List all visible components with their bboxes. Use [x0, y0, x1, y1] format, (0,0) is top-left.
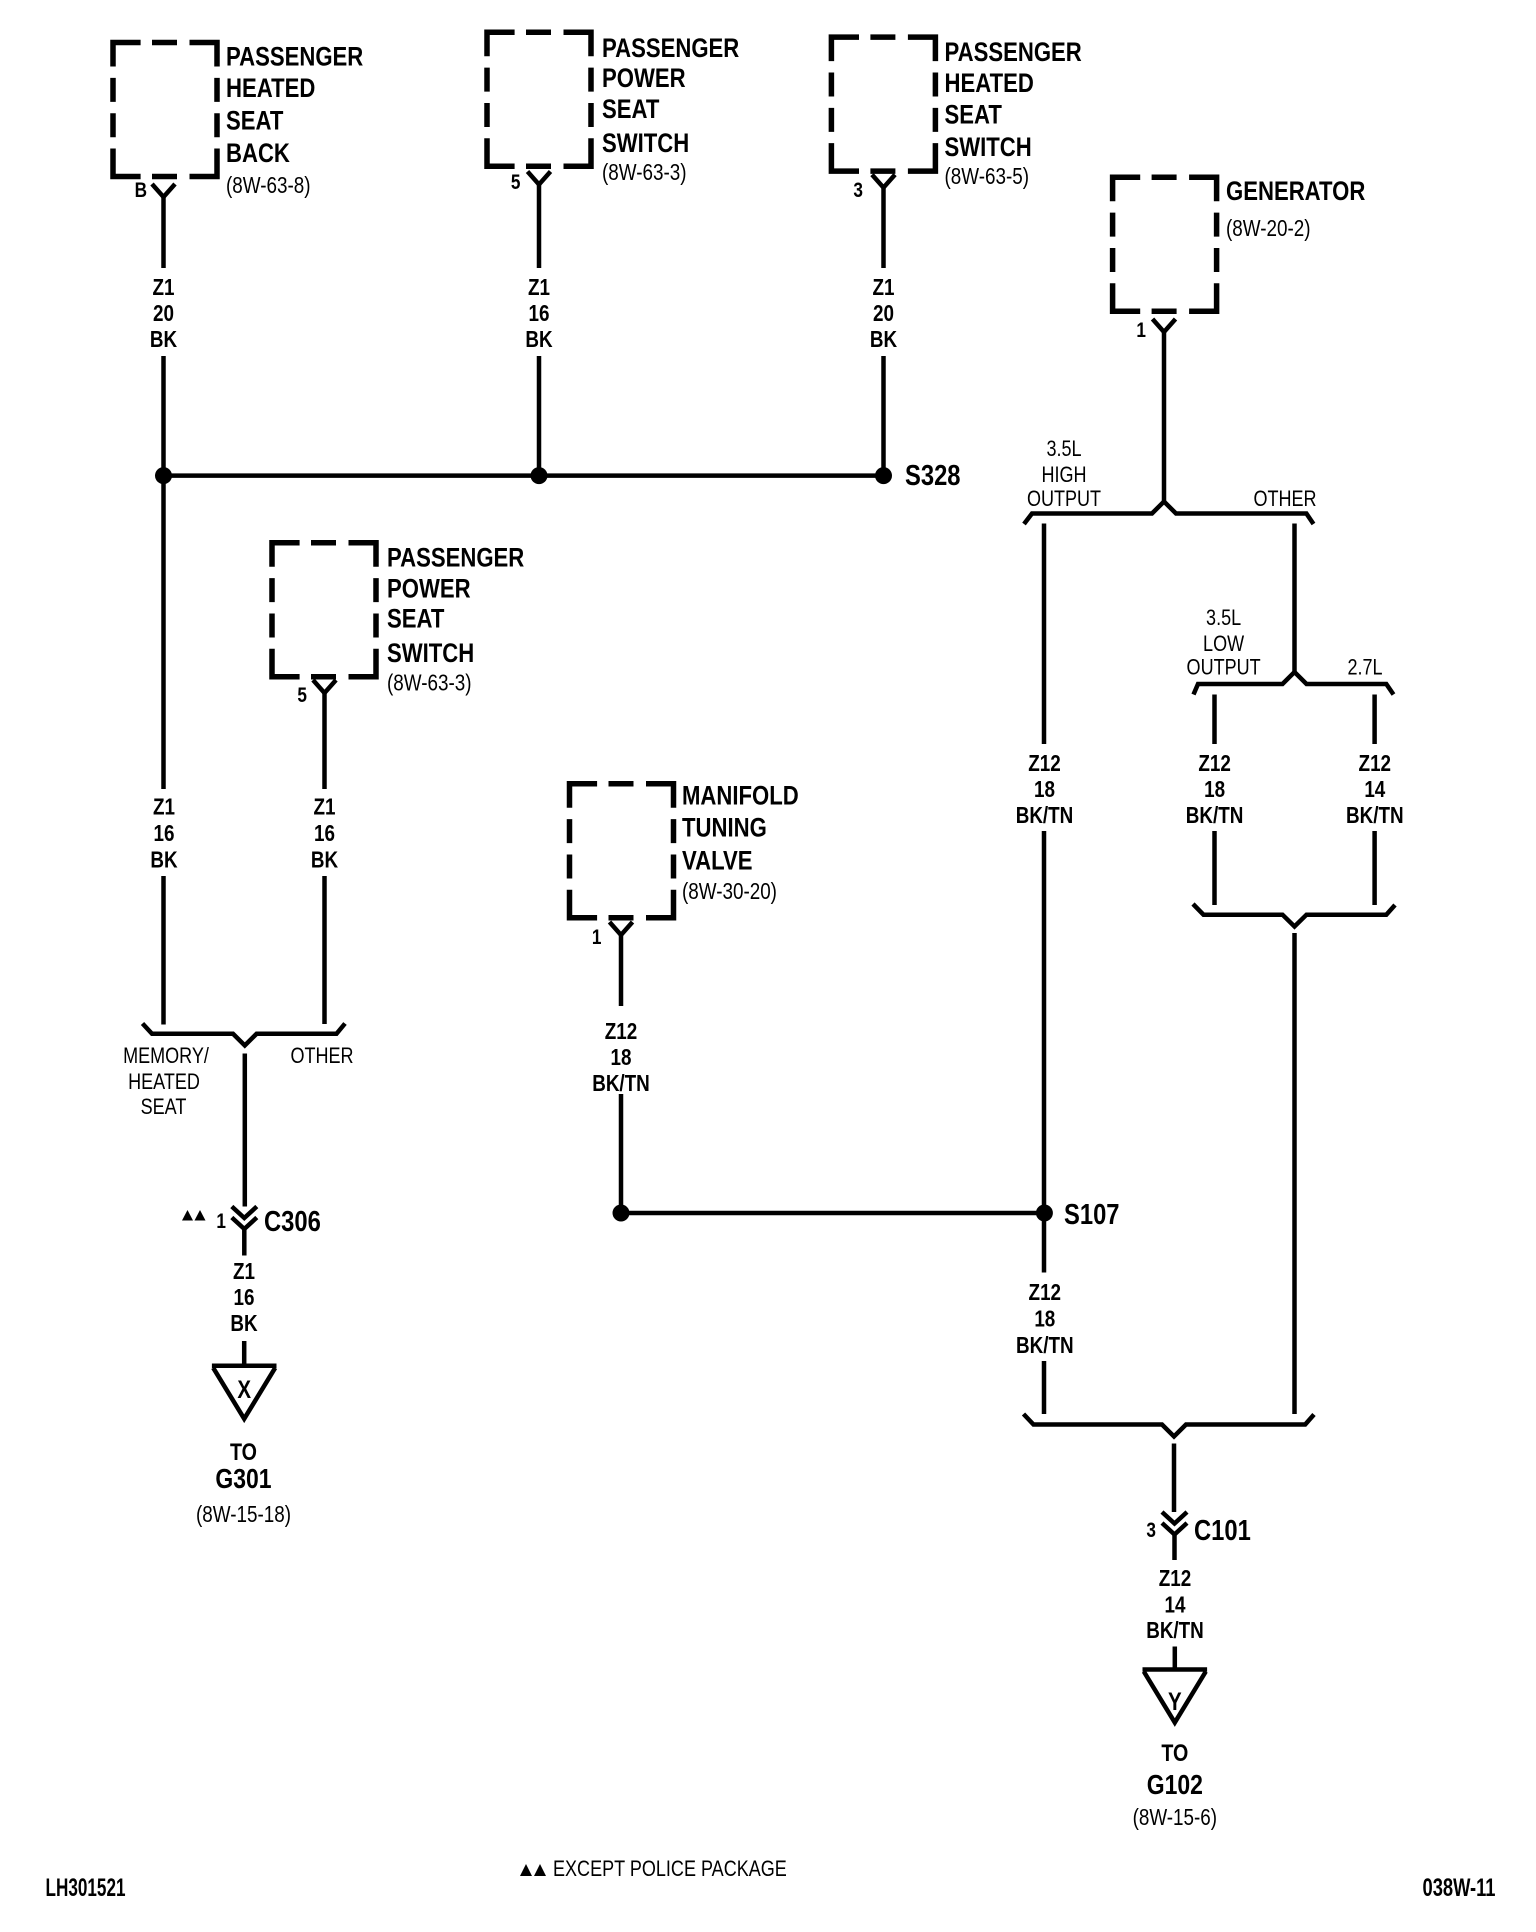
- svg-text:TO: TO: [1161, 1739, 1188, 1766]
- branch split bracket 3.5L HIGH OUTPUT / OTHER: [1024, 437, 1317, 524]
- svg-text:(8W-63-5): (8W-63-5): [945, 164, 1029, 189]
- svg-text:MANIFOLD: MANIFOLD: [682, 781, 799, 811]
- svg-text:16: 16: [314, 821, 335, 846]
- svg-text:Y: Y: [1168, 1687, 1182, 1715]
- svg-text:BK: BK: [870, 327, 897, 352]
- svg-text:(8W-15-18): (8W-15-18): [196, 1502, 291, 1527]
- svg-text:B: B: [135, 180, 147, 203]
- connector pin symbol at U6 pin 1: [610, 922, 633, 935]
- svg-text:3.5L: 3.5L: [1206, 606, 1241, 630]
- pin 5 of U2: [511, 172, 521, 195]
- svg-text:OUTPUT: OUTPUT: [1027, 487, 1101, 511]
- svg-text:BK/TN: BK/TN: [1016, 803, 1074, 828]
- splice S107 bus wire: [621, 1211, 1044, 1216]
- footer sheet code LH301521: [46, 1874, 126, 1902]
- svg-text:20: 20: [153, 301, 174, 326]
- svg-text:MEMORY/: MEMORY/: [123, 1044, 209, 1068]
- ground off-page symbol X: [212, 1366, 277, 1419]
- svg-text:BK/TN: BK/TN: [592, 1071, 650, 1096]
- connector pin symbol at U2 pin 5: [528, 172, 551, 185]
- svg-text:20: 20: [873, 301, 894, 326]
- pin 1 of U4: [1136, 320, 1146, 343]
- svg-text:Z1: Z1: [873, 275, 895, 300]
- wire Z1 16 BK from C306 to ground G301: [230, 1259, 257, 1365]
- connector pin symbol at U1 pin B: [152, 184, 175, 197]
- svg-text:SEAT: SEAT: [387, 605, 444, 635]
- component U3 PASSENGER HEATED SEAT SWITCH (8W-63-5): [831, 37, 1082, 189]
- svg-text:(8W-63-8): (8W-63-8): [226, 173, 310, 198]
- svg-text:SWITCH: SWITCH: [387, 639, 474, 669]
- svg-text:SEAT: SEAT: [141, 1095, 187, 1119]
- svg-text:BACK: BACK: [226, 139, 290, 169]
- svg-text:GENERATOR: GENERATOR: [1226, 177, 1365, 207]
- svg-text:PASSENGER: PASSENGER: [602, 34, 739, 64]
- svg-text:Z12: Z12: [1159, 1566, 1191, 1591]
- wire Z12 14 BK/TN 2.7L sub-branch: [1346, 695, 1404, 906]
- wire Z1 20 BK from U3 pin 3 to splice S328: [870, 188, 897, 475]
- wire Z12 18 BK/TN below splice S107: [1016, 1213, 1074, 1414]
- wire Z1 16 BK from splice S328 down to merge bracket: [150, 476, 177, 1025]
- pin 5 of U5: [297, 685, 307, 708]
- svg-text:5: 5: [297, 685, 307, 708]
- connector C306 (in-line, pin 1): [216, 1205, 320, 1256]
- svg-text:(8W-20-2): (8W-20-2): [1226, 216, 1310, 241]
- svg-text:14: 14: [1165, 1593, 1186, 1618]
- svg-text:Z1: Z1: [153, 795, 175, 820]
- footer drawing number 038W-11: [1423, 1874, 1496, 1902]
- svg-text:G102: G102: [1147, 1770, 1203, 1801]
- svg-text:18: 18: [611, 1045, 632, 1070]
- wire from low/2.7 merge to final merge bracket: [1292, 933, 1297, 1414]
- svg-text:HEATED: HEATED: [128, 1070, 200, 1094]
- connector pin symbol at U3 pin 3: [872, 175, 895, 188]
- svg-text:C101: C101: [1194, 1514, 1251, 1547]
- wire from final merge to connector C101: [1172, 1444, 1177, 1513]
- svg-text:G301: G301: [215, 1464, 271, 1495]
- wire Z1 20 BK from U1 pin B to splice S328: [150, 197, 177, 475]
- svg-text:X: X: [237, 1375, 251, 1403]
- svg-text:Z1: Z1: [314, 795, 336, 820]
- svg-text:3: 3: [853, 180, 863, 203]
- svg-text:OTHER: OTHER: [1253, 487, 1316, 511]
- node TO G102 (8W-15-6): [1133, 1739, 1217, 1830]
- svg-text:18: 18: [1034, 777, 1055, 802]
- svg-text:Z1: Z1: [153, 275, 175, 300]
- svg-text:SWITCH: SWITCH: [945, 133, 1032, 163]
- svg-text:3.5L: 3.5L: [1046, 437, 1081, 461]
- pin 1 of U6: [592, 927, 602, 950]
- svg-text:S107: S107: [1064, 1198, 1119, 1231]
- connector pin symbol at U5 pin 5: [313, 680, 336, 693]
- wire Z12 18 BK/TN from U6 pin 1 to splice S107: [592, 935, 650, 1213]
- svg-text:OTHER: OTHER: [290, 1044, 353, 1068]
- svg-text:PASSENGER: PASSENGER: [387, 543, 524, 573]
- ground off-page symbol Y: [1143, 1670, 1208, 1723]
- wire Z12 18 BK/TN 3.5L low output sub-branch: [1186, 695, 1244, 906]
- svg-text:1: 1: [592, 927, 602, 950]
- svg-text:18: 18: [1034, 1307, 1055, 1332]
- node TO G301 (8W-15-18): [196, 1438, 291, 1527]
- component U1 PASSENGER HEATED SEAT BACK (8W-63-8): [113, 42, 363, 198]
- svg-text:Z12: Z12: [605, 1019, 637, 1044]
- svg-text:C306: C306: [264, 1205, 321, 1238]
- svg-text:(8W-30-20): (8W-30-20): [682, 879, 777, 904]
- svg-text:Z12: Z12: [1028, 751, 1060, 776]
- svg-text:Z1: Z1: [528, 275, 550, 300]
- svg-text:HEATED: HEATED: [226, 74, 315, 104]
- svg-text:EXCEPT POLICE PACKAGE: EXCEPT POLICE PACKAGE: [553, 1857, 787, 1881]
- svg-text:SEAT: SEAT: [226, 107, 283, 137]
- svg-text:PASSENGER: PASSENGER: [226, 42, 363, 72]
- svg-text:3: 3: [1146, 1520, 1156, 1543]
- junction dot at S328 left: [155, 467, 172, 484]
- junction dot splice S107: [1036, 1198, 1120, 1231]
- branch split bracket 3.5L LOW OUTPUT / 2.7L: [1187, 606, 1394, 694]
- svg-text:2.7L: 2.7L: [1347, 656, 1382, 680]
- component U2 PASSENGER POWER SEAT SWITCH (8W-63-3) top: [487, 32, 739, 185]
- wire from memory/heated merge to connector C306: [243, 1054, 248, 1207]
- svg-text:S328: S328: [905, 459, 960, 492]
- svg-text:HEATED: HEATED: [945, 69, 1034, 99]
- svg-text:BK: BK: [230, 1311, 257, 1336]
- svg-text:HIGH: HIGH: [1041, 463, 1086, 487]
- svg-text:TO: TO: [230, 1438, 257, 1465]
- svg-text:SWITCH: SWITCH: [602, 129, 689, 159]
- svg-text:BK: BK: [150, 327, 177, 352]
- svg-text:PASSENGER: PASSENGER: [945, 38, 1082, 68]
- svg-text:BK: BK: [150, 848, 177, 873]
- svg-text:Z1: Z1: [233, 1259, 255, 1284]
- note EXCEPT POLICE PACKAGE: [520, 1857, 787, 1881]
- svg-text:1: 1: [216, 1211, 226, 1234]
- svg-text:14: 14: [1364, 777, 1385, 802]
- svg-text:BK/TN: BK/TN: [1016, 1333, 1074, 1358]
- svg-text:BK: BK: [311, 848, 338, 873]
- svg-text:LH301521: LH301521: [46, 1874, 126, 1902]
- svg-text:Z12: Z12: [1029, 1280, 1061, 1305]
- connector pin symbol at U4 pin 1: [1153, 319, 1176, 332]
- svg-text:038W-11: 038W-11: [1423, 1874, 1496, 1902]
- svg-text:5: 5: [511, 172, 521, 195]
- svg-text:(8W-15-6): (8W-15-6): [1133, 1805, 1217, 1830]
- svg-text:VALVE: VALVE: [682, 847, 752, 877]
- svg-text:SEAT: SEAT: [945, 101, 1002, 131]
- svg-text:BK/TN: BK/TN: [1146, 1618, 1204, 1643]
- branch merge bracket to C101: [1024, 1414, 1315, 1437]
- wire from U4 pin 1 to engine split bracket: [1162, 332, 1167, 501]
- junction dot at manifold tuning valve branch: [613, 1205, 630, 1222]
- wire Z12 14 BK/TN from C101 to ground G102: [1146, 1566, 1204, 1669]
- component U5 PASSENGER POWER SEAT SWITCH (8W-63-3) middle: [272, 543, 524, 696]
- junction dot splice S328: [875, 459, 960, 492]
- svg-text:OUTPUT: OUTPUT: [1187, 656, 1261, 680]
- svg-text:TUNING: TUNING: [682, 814, 767, 844]
- svg-text:POWER: POWER: [387, 575, 471, 605]
- wire Z12 18 BK/TN 3.5L high output branch to splice S107: [1016, 524, 1074, 1214]
- note marker triangles (except police package): [182, 1210, 206, 1221]
- svg-text:POWER: POWER: [602, 64, 686, 94]
- svg-text:18: 18: [1204, 777, 1225, 802]
- connector C101 (in-line, pin 3): [1146, 1512, 1250, 1560]
- svg-text:(8W-63-3): (8W-63-3): [387, 671, 471, 696]
- svg-text:16: 16: [529, 301, 550, 326]
- pin 3 of U3: [853, 180, 863, 203]
- pin B of U1: [135, 180, 147, 203]
- svg-text:16: 16: [154, 821, 175, 846]
- branch merge bracket MEMORY/HEATED SEAT / OTHER: [123, 1024, 353, 1120]
- svg-text:BK/TN: BK/TN: [1346, 803, 1404, 828]
- wire OTHER branch to second split bracket: [1292, 524, 1297, 673]
- svg-text:SEAT: SEAT: [602, 95, 659, 125]
- svg-text:Z12: Z12: [1198, 751, 1230, 776]
- svg-text:(8W-63-3): (8W-63-3): [602, 160, 686, 185]
- svg-text:LOW: LOW: [1203, 632, 1244, 656]
- component U4 GENERATOR (8W-20-2): [1113, 177, 1366, 311]
- wire Z1 16 BK from U5 pin 5 to merge bracket: [311, 693, 338, 1024]
- junction dot at S328 middle: [531, 467, 548, 484]
- splice S328 bus wire: [164, 473, 884, 478]
- svg-text:BK/TN: BK/TN: [1186, 803, 1244, 828]
- component U6 MANIFOLD TUNING VALVE (8W-30-20): [570, 781, 799, 917]
- wire Z1 16 BK from U2 pin 5 to splice S328: [525, 185, 552, 476]
- branch merge bracket low output / 2.7L: [1193, 904, 1395, 927]
- svg-text:16: 16: [234, 1285, 255, 1310]
- svg-text:BK: BK: [525, 327, 552, 352]
- svg-text:1: 1: [1136, 320, 1146, 343]
- svg-text:Z12: Z12: [1359, 751, 1391, 776]
